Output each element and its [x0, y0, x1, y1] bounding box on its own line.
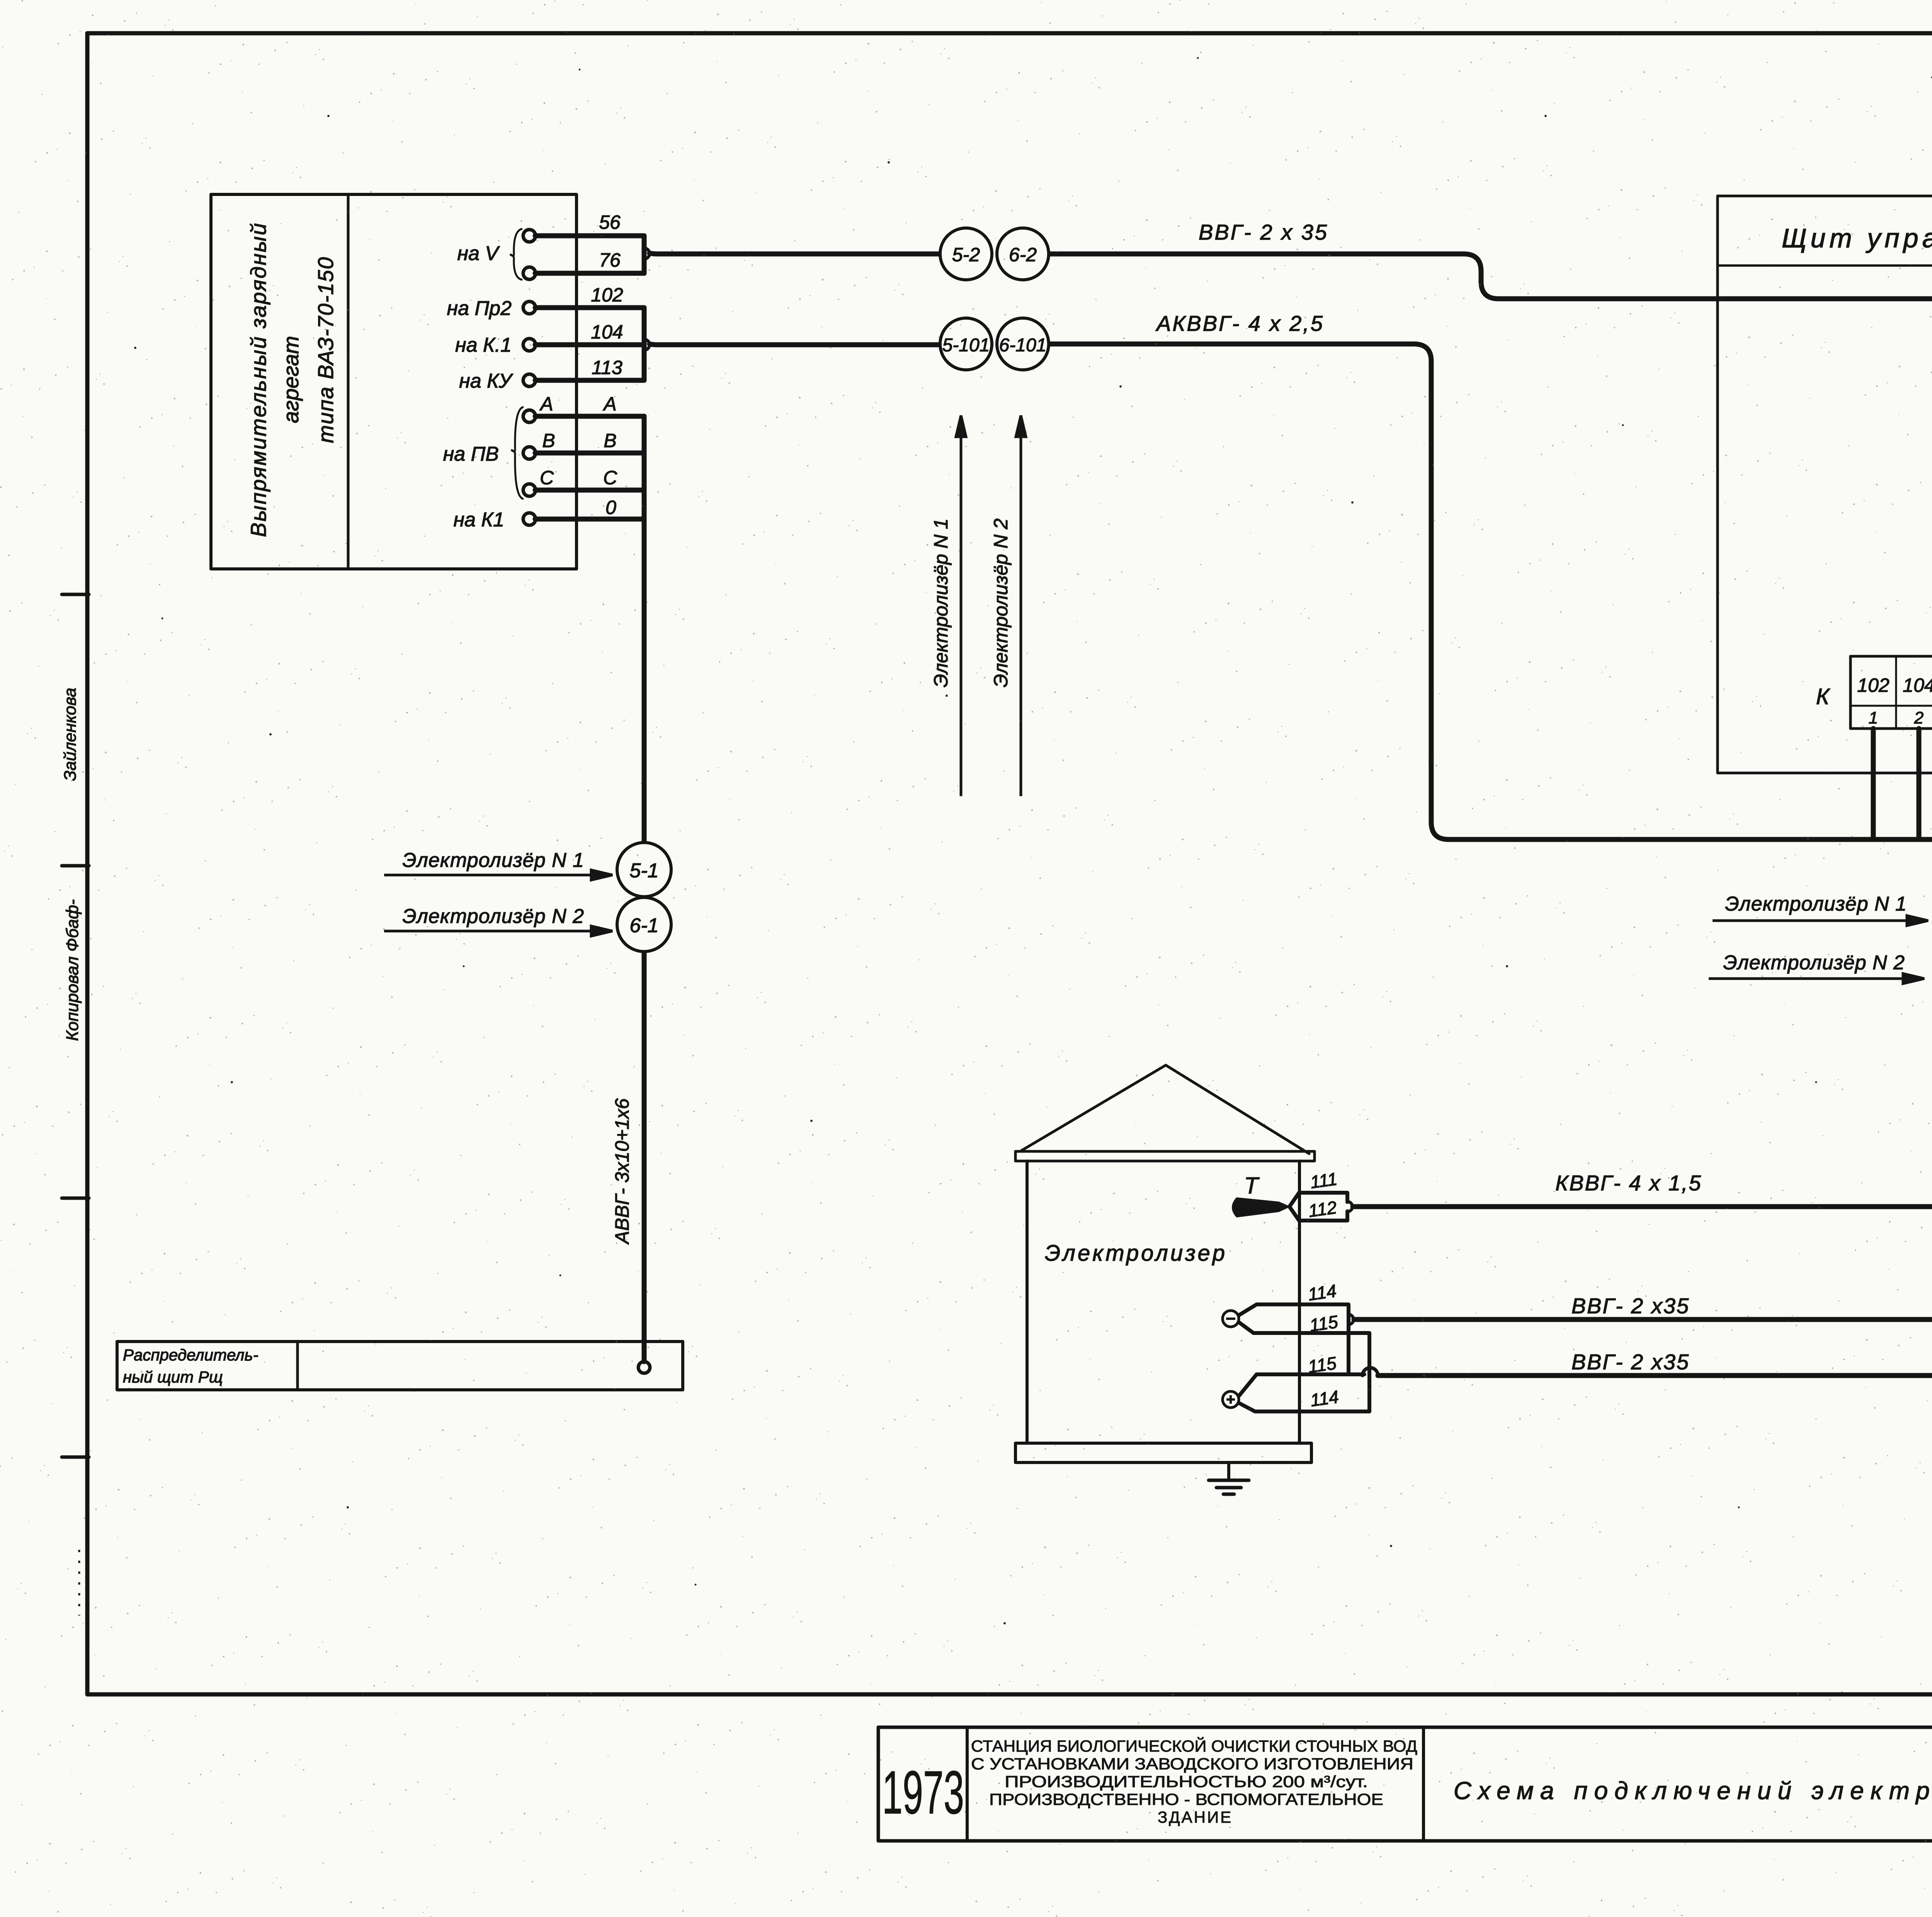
title block outline	[878, 1727, 1932, 1841]
distribution board box	[117, 1342, 683, 1390]
T connector box	[1299, 1193, 1347, 1221]
plus connector box	[1255, 1333, 1369, 1411]
wire phase A	[535, 414, 644, 419]
rectifier box divider	[347, 194, 350, 569]
tank roof	[1020, 1065, 1309, 1154]
cable marker circle 5-2	[940, 228, 992, 280]
cable exit dome 104	[644, 339, 650, 350]
wire 113	[535, 378, 644, 383]
terminal circle phase C	[523, 484, 536, 496]
cable exit dome 56/76	[644, 248, 650, 259]
terminal block K outline	[1850, 656, 1932, 729]
terminal circle KU	[523, 374, 536, 386]
control panel title separator	[1718, 264, 1932, 267]
wire phase C	[535, 488, 644, 493]
terminal block K column dividers	[1896, 656, 1932, 729]
terminal circle K.1	[523, 339, 536, 351]
terminal block K row divider	[1850, 705, 1932, 707]
terminal circles of rectifier	[523, 230, 536, 525]
wire KVVG from 6-102 to T connector	[1353, 1003, 1932, 1207]
wire 104	[535, 342, 644, 347]
terminal circle phase A	[523, 410, 536, 422]
minus connector box	[1253, 1304, 1369, 1373]
terminal circle neutral 0	[523, 513, 536, 525]
control panel box	[1718, 196, 1932, 773]
wire neutral 0	[535, 517, 644, 522]
plus connector wedge	[1239, 1374, 1257, 1411]
merge bar 102/104/113	[642, 308, 647, 380]
minus connector dome	[1349, 1314, 1354, 1325]
wire phase B	[535, 451, 644, 456]
arrow electrolyzer N2 (middle)	[1709, 974, 1924, 984]
cable marker circle 6-2	[997, 228, 1049, 280]
cable marker circle 6-1	[617, 897, 671, 952]
terminal circle Pr2	[523, 301, 536, 314]
cable marker circle 5-101	[940, 318, 992, 370]
wire 102	[535, 305, 644, 310]
terminal circle phase B	[523, 447, 536, 459]
plus terminal circle	[1223, 1391, 1239, 1408]
terminal circle V2	[523, 267, 536, 279]
tank left wall	[1026, 1161, 1029, 1443]
wire 115 from 6-3 to minus terminal	[1354, 1003, 1932, 1319]
plus connector dome	[1362, 1368, 1378, 1376]
tank right wall	[1298, 1161, 1301, 1443]
wire terminal 1 (102) to bus	[1871, 729, 1876, 839]
tank roof band	[1015, 1151, 1315, 1161]
wire 76	[535, 271, 644, 276]
frame tick marks	[62, 594, 89, 1457]
wire AKVVG-4x2.5 from rectifier	[650, 344, 940, 345]
T connector wedge	[1289, 1193, 1299, 1221]
terminal circle V1	[523, 230, 536, 242]
cable marker circle 5-1	[617, 843, 671, 897]
margin dashes	[78, 1550, 80, 1616]
brace for na PV	[511, 407, 524, 499]
title block dividers	[967, 1727, 1932, 1841]
distribution board terminal circle	[638, 1362, 650, 1373]
cable AVVG vertical run to distribution board	[642, 416, 647, 1362]
wire terminal 2 (104) to bus	[1917, 729, 1922, 839]
brace for na V	[510, 229, 522, 280]
scan speckles	[134, 57, 1932, 1625]
wire 56	[535, 233, 644, 238]
arrow line electrolyzer N2 vertical	[1016, 415, 1026, 796]
thermometer probe (black)	[1232, 1197, 1291, 1217]
arrow to 5-1	[384, 870, 612, 880]
rectifier unit VAZ-70-150 box	[211, 194, 577, 569]
ground lead	[1227, 1462, 1230, 1480]
cable marker circle 6-101	[997, 318, 1049, 370]
arrow to 6-1	[384, 926, 612, 936]
arrow line electrolyzer N1 vertical	[956, 415, 966, 796]
distribution board divider	[296, 1342, 299, 1390]
tank base	[1015, 1443, 1311, 1462]
wire VVG-2x35 from rectifier to V3	[650, 253, 940, 254]
minus connector wedge	[1239, 1304, 1257, 1333]
merge bar 56/76	[642, 236, 647, 273]
ground symbol	[1209, 1480, 1249, 1494]
arrow electrolyzer N1 (middle)	[1713, 916, 1928, 926]
wire 114 from 6-4 to plus terminal	[1378, 1003, 1932, 1376]
T connector dome	[1347, 1202, 1352, 1212]
minus terminal circle	[1223, 1311, 1239, 1327]
